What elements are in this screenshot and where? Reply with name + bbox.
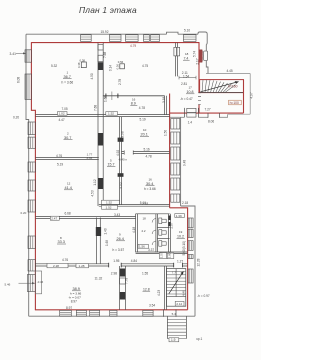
W1 lower flue dark block — [96, 227, 101, 236]
svg-text:2.18: 2.18 — [142, 202, 148, 206]
svg-text:1.9: 1.9 — [171, 338, 176, 342]
svg-text:1.28: 1.28 — [79, 264, 85, 268]
svg-text:11.32: 11.32 — [95, 277, 103, 281]
svg-text:4.18: 4.18 — [132, 227, 136, 233]
svg-text:7.27: 7.27 — [205, 108, 211, 112]
svg-text:0.36: 0.36 — [87, 156, 93, 160]
svg-text:h=100: h=100 — [230, 101, 239, 105]
W2 flue dark tick lower — [118, 173, 124, 177]
window L5 — [28, 162, 35, 172]
svg-text:3.37: 3.37 — [148, 248, 154, 252]
window T5 — [183, 35, 196, 42]
svg-text:1.27: 1.27 — [177, 259, 183, 263]
interior wall W2 x120.5 (y116..206) — [120, 117, 122, 205]
svg-text:1.4: 1.4 — [188, 120, 193, 124]
svg-text:30.4: 30.4 — [146, 182, 153, 186]
room 16 label 8.9 — [130, 97, 137, 105]
svg-text:6.08: 6.08 — [17, 77, 21, 83]
windows on lower-right wall — [188, 218, 193, 283]
wing stair red outline — [200, 80, 244, 93]
svg-text:9.48: 9.48 — [183, 160, 187, 166]
svg-text:3.98: 3.98 — [120, 131, 124, 137]
W2 flue dark tick — [118, 138, 124, 142]
interior wall W3 (y266..310 between 38.9 and 12.8) — [120, 266, 126, 310]
svg-text:0.20: 0.20 — [13, 116, 19, 120]
svg-text:4.45: 4.45 — [227, 69, 233, 73]
svg-text:8.97: 8.97 — [66, 306, 72, 310]
windows on left wall upper — [25, 50, 31, 100]
WC cluster left wall W4 — [136, 214, 138, 253]
svg-text:4.84: 4.84 — [131, 259, 137, 263]
svg-text:7.78: 7.78 — [124, 278, 128, 284]
window T2 — [110, 35, 122, 42]
window MR1 — [171, 119, 180, 130]
red line: wing bottom inner — [170, 112, 244, 114]
dim 3.41 + arrow — [10, 52, 27, 56]
svg-text:2.81: 2.81 — [181, 82, 187, 86]
entrance double door at wing bottom — [187, 108, 196, 117]
dimension texts group — [5, 29, 254, 343]
svg-text:7.05: 7.05 — [62, 107, 68, 111]
step wall at y207 black — [181, 206, 195, 316]
window L9 — [28, 260, 35, 271]
WC cell divider 1 — [157, 227, 169, 229]
window B2 — [76, 310, 86, 316]
room label 12.8 — [143, 287, 151, 291]
svg-text:5.32: 5.32 — [51, 64, 57, 68]
dim box 1.56 WC — [138, 244, 148, 248]
svg-text:2.12: 2.12 — [176, 302, 182, 306]
svg-text:1.54: 1.54 — [183, 74, 189, 78]
svg-text:4.76: 4.76 — [62, 258, 68, 262]
dim box 1.52 on H2 — [106, 112, 118, 116]
room label 30.4 — [144, 177, 156, 190]
svg-text:7.4: 7.4 — [184, 56, 189, 60]
red line: wing right inner — [243, 80, 245, 114]
WC toilet 3 — [159, 241, 166, 247]
svg-text:0.20: 0.20 — [21, 211, 27, 215]
W1 flue dark block 5 — [98, 178, 103, 189]
svg-text:2.28: 2.28 — [53, 264, 59, 268]
svg-text:4.79: 4.79 — [130, 44, 136, 48]
svg-text:3.54: 3.54 — [149, 303, 155, 307]
svg-text:2.17: 2.17 — [196, 58, 200, 64]
wing bottom outer wall — [170, 114, 228, 117]
interior wall W1 lower (between 33.3 and 26.4) — [97, 218, 101, 264]
svg-text:-h = 0.47: -h = 0.47 — [180, 97, 193, 101]
svg-text:1.57: 1.57 — [160, 252, 164, 258]
windows on top wall — [81, 35, 196, 42]
window MR2 — [171, 132, 180, 144]
svg-text:18: 18 — [143, 216, 147, 220]
window BR2 — [188, 229, 193, 237]
interior wall W5 x176 (y42..76) — [176, 43, 178, 77]
svg-text:2.07: 2.07 — [170, 222, 174, 228]
dim box 1.80 — [167, 252, 174, 258]
dim box 1.39 room 10.2 — [175, 214, 185, 218]
svg-text:5.10: 5.10 — [184, 29, 190, 33]
cupboard near left wall bottom — [35, 271, 41, 294]
svg-text:30.7: 30.7 — [64, 136, 71, 140]
window MR6 — [171, 194, 180, 202]
svg-text:h = 3.66: h = 3.66 — [144, 187, 156, 191]
column square room 2 — [115, 60, 124, 69]
red line: left wall inner face with jog — [31, 42, 35, 310]
stairwell left wall — [165, 266, 167, 310]
wing stair landing line — [200, 92, 244, 94]
window L1 — [25, 50, 31, 62]
cased opening on W5 — [174, 47, 180, 56]
room 2 label 30.7 — [64, 131, 73, 139]
room label 38.9 — [69, 287, 82, 299]
stair treads — [166, 272, 185, 294]
interior wall H2 (y115 full width) — [35, 115, 169, 117]
dim box 1.02 on H2 — [58, 112, 68, 116]
svg-text:2.98: 2.98 — [111, 271, 117, 275]
W3 flue dark block c — [120, 292, 126, 300]
svg-text:-0.46: -0.46 — [37, 280, 44, 284]
svg-text:1.52: 1.52 — [108, 112, 114, 116]
svg-text:4.75: 4.75 — [142, 64, 148, 68]
WC toilet 1 — [159, 218, 166, 224]
svg-text:h = 3.66: h = 3.66 — [62, 80, 74, 84]
room 10.2 label — [177, 230, 185, 238]
window B3 — [90, 310, 100, 316]
svg-text:1.56: 1.56 — [139, 245, 145, 249]
svg-text:4.48: 4.48 — [182, 290, 186, 296]
svg-text:3.43: 3.43 — [114, 213, 120, 217]
svg-text:0.56: 0.56 — [118, 60, 124, 64]
door gap on H6 middle — [109, 263, 122, 267]
dim box 2.47 below L3 — [50, 216, 59, 220]
column square room 1 — [77, 58, 87, 68]
svg-text:5.74: 5.74 — [192, 51, 196, 57]
dim 2.9 box — [175, 301, 184, 306]
stoop rungs — [167, 319, 186, 338]
WC toilet 2 — [159, 230, 166, 236]
interior wall W1 vertical x99-103 — [98, 43, 103, 206]
interior wall H4 (y152 x121..170) — [122, 152, 170, 154]
svg-text:3-41: 3-41 — [10, 52, 17, 56]
window T1 — [81, 35, 92, 42]
porch wing thin outline right — [249, 74, 251, 115]
room 8 label 33.3 — [57, 236, 66, 244]
svg-text:1.55: 1.55 — [142, 271, 148, 275]
svg-text:5.52: 5.52 — [119, 182, 123, 188]
window MR5 — [171, 178, 180, 190]
window BR3 — [188, 241, 193, 251]
window MR4 — [171, 163, 180, 175]
svg-text:10.8: 10.8 — [187, 90, 194, 94]
wall: bottom exterior outer line — [29, 315, 195, 317]
svg-text:5.16: 5.16 — [144, 148, 150, 152]
WC door arcs — [152, 219, 156, 246]
svg-text:1.80: 1.80 — [167, 252, 171, 258]
room 9 label 26.4 — [113, 233, 126, 252]
red line: right upper wall below stair door — [198, 105, 200, 114]
window MR3 — [171, 147, 180, 160]
svg-text:4.78: 4.78 — [146, 155, 152, 159]
svg-text:h=160: h=160 — [228, 84, 238, 88]
svg-text:2.18: 2.18 — [182, 201, 188, 205]
wall: top exterior outer line — [26, 32, 198, 34]
corridor wall L1 (y205 x99..170) — [99, 205, 170, 207]
WC cluster top wall — [136, 213, 170, 215]
room label 35.7 — [107, 157, 127, 166]
door opening right wall to wing stair — [198, 93, 201, 105]
svg-text:8.97: 8.97 — [71, 299, 77, 303]
svg-text:20.1: 20.1 — [141, 133, 148, 137]
window L4 — [28, 137, 35, 148]
wall: mid-right exterior outer black — [180, 117, 182, 206]
svg-text:4.97: 4.97 — [249, 92, 253, 98]
svg-text:-0.40 п: -0.40 п — [118, 157, 127, 161]
wing stair diagonal arrow — [201, 82, 239, 92]
svg-text:План 1 этажа: План 1 этажа — [79, 5, 137, 15]
window B5 — [143, 310, 153, 316]
dim box 1.28 on H6 — [76, 264, 89, 269]
niche on right wall (room 18) — [199, 50, 202, 63]
dimension line under room 18 — [179, 76, 196, 80]
wall: top-right pilaster — [198, 32, 207, 45]
svg-text:5.60(3.10): 5.60(3.10) — [182, 241, 186, 256]
svg-text:1.40: 1.40 — [104, 228, 108, 234]
room labels group — [57, 52, 194, 299]
svg-text:1.39: 1.39 — [176, 214, 182, 218]
svg-text:1.95: 1.95 — [113, 259, 119, 263]
stair diagonal arrow — [169, 272, 183, 294]
exterior entrance stoop rails — [167, 316, 186, 338]
svg-text:4.78: 4.78 — [139, 106, 145, 110]
windows on left wall lower — [27, 122, 35, 292]
svg-text:5.46: 5.46 — [5, 282, 11, 286]
svg-text:16: 16 — [149, 177, 153, 181]
svg-text:4.53: 4.53 — [90, 190, 94, 196]
window B1 — [60, 310, 72, 316]
WC cell divider 2 — [157, 238, 169, 240]
room 18 label — [183, 52, 190, 60]
dim box 2.28 on H6 — [47, 263, 68, 268]
window L6 — [28, 180, 35, 191]
svg-text:5.19: 5.19 — [140, 117, 146, 121]
svg-text:17: 17 — [189, 86, 193, 90]
svg-text:10: 10 — [143, 128, 147, 132]
window L7 — [28, 200, 35, 212]
svg-text:5.19: 5.19 — [57, 162, 63, 166]
window L2 — [25, 74, 31, 99]
room 12 label 41.4 — [64, 182, 73, 190]
svg-text:26.4: 26.4 — [117, 237, 124, 241]
svg-text:h = 3.57: h = 3.57 — [113, 248, 125, 252]
level arrow on left wall — [19, 282, 36, 284]
wall: mid-right exterior red inner — [169, 94, 171, 208]
svg-text:4.92: 4.92 — [116, 150, 120, 156]
svg-text:36.7: 36.7 — [64, 75, 71, 79]
svg-text:0.56: 0.56 — [115, 64, 119, 70]
svg-text:0.38: 0.38 — [80, 58, 86, 62]
svg-text:41.4: 41.4 — [65, 186, 72, 190]
svg-text:12.28: 12.28 — [196, 258, 200, 266]
red line: top wall inner face — [31, 42, 199, 44]
W1 flue block 2 — [98, 55, 103, 61]
wall between WC and room 10.2 — [169, 214, 171, 252]
step wall at y207 red — [170, 208, 188, 310]
red line: bottom wall inner face — [35, 309, 188, 311]
svg-text:3.18: 3.18 — [162, 97, 166, 103]
stair center line — [175, 269, 177, 297]
room 17 label 10.8 — [180, 86, 194, 101]
interior wall H3 (y158 x35..99) — [35, 158, 98, 160]
windows on bottom wall — [60, 310, 153, 316]
main stair outline — [166, 269, 185, 307]
svg-text:1.02: 1.02 — [59, 112, 65, 116]
svg-text:1.12: 1.12 — [93, 179, 97, 185]
corridor wall H6 (y265 full width) — [35, 264, 187, 266]
window T4b — [151, 35, 160, 42]
room label 20.1 — [140, 128, 149, 136]
svg-text:19: 19 — [179, 230, 183, 234]
svg-text:12: 12 — [67, 182, 71, 186]
interior wall H1 (y96 top of room 16) — [103, 95, 165, 97]
window BR4 — [188, 269, 193, 283]
svg-text:1.52: 1.52 — [106, 201, 112, 205]
svg-text:15.7: 15.7 — [108, 163, 115, 167]
W3 flue dark block a — [120, 269, 126, 277]
svg-text:2.47: 2.47 — [51, 217, 57, 221]
window BR3b — [188, 255, 193, 259]
WC small label — [142, 216, 147, 233]
W1 flue dark block 4 — [98, 133, 103, 146]
svg-text:4.23: 4.23 — [157, 290, 161, 296]
flue dark blocks on WC right wall — [168, 216, 171, 221]
svg-text:кр.1: кр.1 — [197, 337, 203, 341]
svg-text:12.8: 12.8 — [143, 287, 150, 291]
svg-text:7.68: 7.68 — [103, 52, 107, 58]
WC divider vertical — [156, 214, 158, 253]
stoop label box — [169, 338, 179, 342]
wing stair treads (winders) — [202, 80, 236, 93]
svg-text:0.38: 0.38 — [77, 62, 81, 68]
svg-text:4.76: 4.76 — [56, 154, 62, 158]
svg-text:1.52: 1.52 — [106, 206, 112, 210]
svg-text:-h = 0.97: -h = 0.97 — [197, 294, 210, 298]
svg-text:15.92: 15.92 — [101, 30, 109, 34]
svg-text:7.68: 7.68 — [94, 105, 98, 111]
svg-text:38.9: 38.9 — [73, 287, 80, 291]
svg-text:1.65: 1.65 — [103, 96, 107, 102]
WC bottom wall to red — [136, 252, 188, 254]
W1 flue dark block 3 — [98, 62, 103, 70]
porch wing thin outline bottom — [228, 113, 250, 115]
window L10 door — [27, 275, 35, 292]
svg-text:10.2: 10.2 — [177, 235, 184, 239]
svg-text:6.68: 6.68 — [65, 212, 71, 216]
svg-text:4.50: 4.50 — [90, 73, 94, 79]
window T3 — [126, 35, 139, 42]
svg-text:8.9: 8.9 — [131, 102, 136, 106]
interior wall W6 x165 (y96..116) — [165, 96, 167, 115]
porch wing thin outline top — [206, 73, 250, 75]
window BR1 — [188, 218, 193, 228]
svg-text:33.3: 33.3 — [58, 240, 65, 244]
dim box 1.52 above L1 — [102, 200, 120, 205]
pilaster on right wall — [204, 51, 208, 61]
room 1 label 36.7 — [62, 71, 74, 85]
wing porch step jambs — [208, 113, 220, 118]
svg-text:7.7: 7.7 — [172, 270, 177, 274]
svg-text:5.4: 5.4 — [172, 312, 177, 316]
entrance door in bottom wall — [163, 309, 176, 316]
stair landing line — [166, 296, 185, 298]
door gap on H6 right — [174, 263, 183, 267]
windows on mid-right wall — [171, 119, 180, 203]
svg-text:3.14: 3.14 — [109, 65, 113, 71]
W1 flue block 1 — [98, 45, 103, 50]
svg-text:1.69: 1.69 — [105, 240, 109, 246]
window B4 — [110, 310, 117, 316]
svg-text:-h = 0.07: -h = 0.07 — [69, 295, 82, 299]
svg-text:1.50: 1.50 — [163, 130, 167, 136]
W3 flue block b outline — [120, 278, 126, 284]
door gap on H4 — [124, 151, 133, 154]
svg-text:2.2: 2.2 — [142, 229, 146, 233]
window T4 — [144, 35, 150, 42]
door jambs on H1 — [106, 94, 118, 99]
corridor wall L3 (y217 x35..136) — [35, 217, 135, 219]
dim box 1.52 below L1 — [102, 205, 118, 209]
window L8 — [28, 236, 35, 249]
window L3 — [28, 122, 35, 135]
wall: right upper exterior outer — [206, 45, 208, 74]
dim box 1.57 — [159, 252, 166, 259]
door jambs wing — [185, 108, 199, 118]
red line: right upper wall inner face — [198, 42, 200, 93]
svg-text:8.06: 8.06 — [208, 119, 214, 123]
dim tick cross on H1 — [111, 92, 113, 101]
svg-text:2.78: 2.78 — [118, 79, 122, 85]
label box h=100 — [229, 100, 242, 105]
svg-text:4.47: 4.47 — [59, 118, 65, 122]
wall: left exterior outer line — [26, 34, 29, 316]
